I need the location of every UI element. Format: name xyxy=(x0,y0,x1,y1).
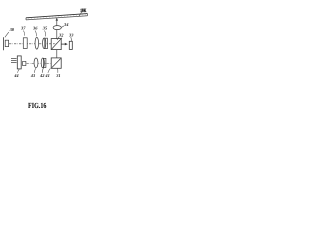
leader 42 xyxy=(42,68,43,73)
row2 dash-dot axis xyxy=(27,63,57,65)
leader 34 xyxy=(61,26,64,28)
leader 32 xyxy=(57,37,59,40)
leader 33 xyxy=(71,37,72,41)
leader 19K xyxy=(79,12,82,17)
leader 38 xyxy=(5,32,9,37)
laser 38 vertical plate xyxy=(3,37,5,50)
disc 19K xyxy=(26,14,88,20)
svg-text:37: 37 xyxy=(20,26,26,31)
svg-text:35: 35 xyxy=(42,26,48,31)
leader 41 xyxy=(48,68,50,72)
svg-text:41: 41 xyxy=(44,73,49,78)
row2 laser chip box xyxy=(23,61,26,65)
svg-text:44: 44 xyxy=(13,73,19,78)
row2 hatch (laser fins) xyxy=(11,58,17,62)
row1 dash-dot axis xyxy=(9,43,56,45)
plate 37 xyxy=(23,38,27,49)
leader 37 xyxy=(23,31,24,36)
detector 33 xyxy=(69,41,72,49)
leader 44 xyxy=(18,69,20,73)
leader 43 xyxy=(34,68,36,73)
svg-text:38: 38 xyxy=(9,27,15,32)
leader 35 xyxy=(44,31,45,37)
lens+plate 35 xyxy=(43,38,46,49)
arrowhead up to disc xyxy=(56,17,58,21)
svg-text:33: 33 xyxy=(68,33,74,38)
arrow to detector xyxy=(61,43,65,45)
beam splitter row2 xyxy=(51,58,61,68)
row2 lens+plate B xyxy=(41,58,44,68)
lens 34 (horizontal ellipse on vertical axis) xyxy=(53,26,61,30)
leader 31 xyxy=(57,69,59,73)
svg-text:FIG.16: FIG.16 xyxy=(28,101,46,110)
svg-text:42: 42 xyxy=(39,73,45,78)
svg-text:36: 36 xyxy=(32,26,38,31)
beam splitter 32 (row1) xyxy=(51,39,61,50)
vertical optical axis xyxy=(56,20,58,39)
laser 38 chip box xyxy=(5,40,8,46)
lens 36 xyxy=(35,37,39,49)
leader 36 xyxy=(35,31,36,37)
row2 laser plate xyxy=(17,56,21,69)
svg-text:43: 43 xyxy=(30,73,36,78)
row2 lens A xyxy=(34,58,38,68)
svg-text:31: 31 xyxy=(55,73,60,78)
